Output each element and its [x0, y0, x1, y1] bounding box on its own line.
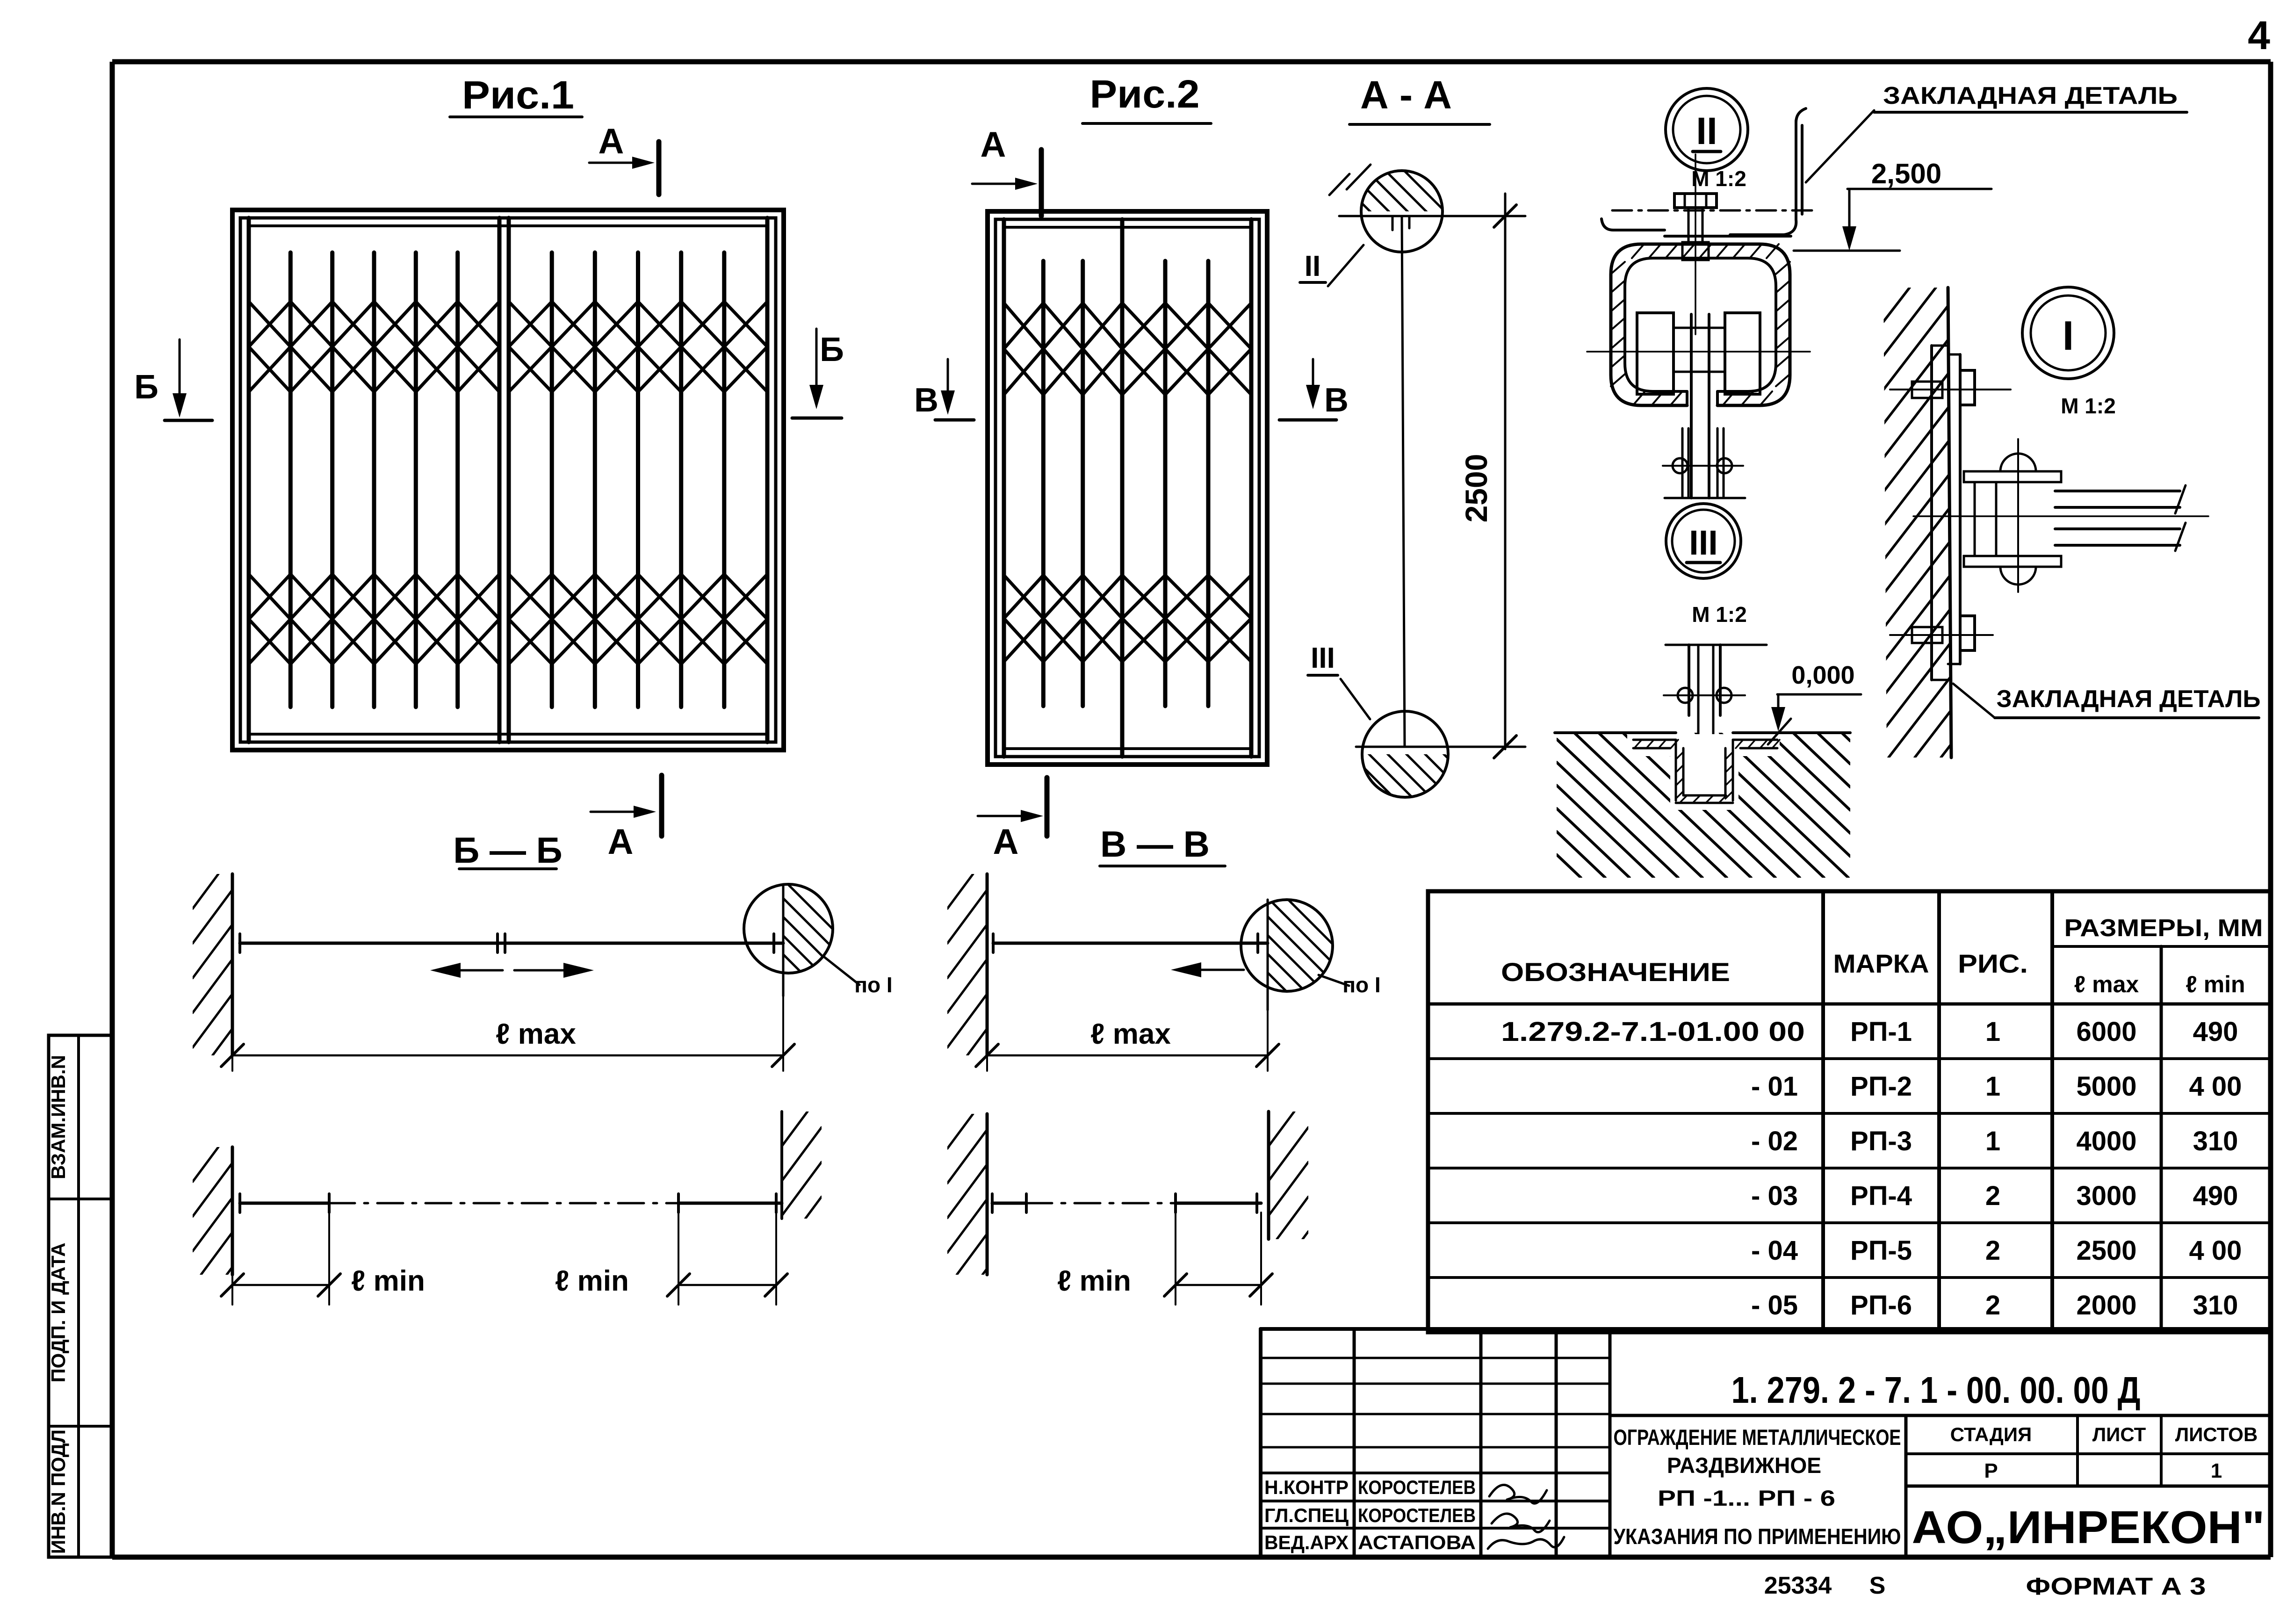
- svg-text:III: III: [1311, 642, 1335, 674]
- svg-text:ЛИСТ: ЛИСТ: [2092, 1423, 2146, 1445]
- svg-text:РП-5: РП-5: [1850, 1235, 1912, 1266]
- svg-text:490: 490: [2193, 1181, 2238, 1211]
- svg-text:- 04: - 04: [1751, 1235, 1798, 1266]
- svg-text:1. 279. 2 - 7. 1 - 00. 00. 00: 1. 279. 2 - 7. 1 - 00. 00. 00 Д: [1731, 1369, 2141, 1411]
- svg-text:II: II: [1696, 110, 1717, 152]
- svg-text:А: А: [993, 822, 1019, 862]
- svg-text:РАЗДВИЖНОЕ: РАЗДВИЖНОЕ: [1667, 1453, 1821, 1478]
- svg-text:ВЗАМ.ИНВ.N: ВЗАМ.ИНВ.N: [47, 1055, 69, 1179]
- svg-text:Н.КОНТР: Н.КОНТР: [1264, 1476, 1349, 1498]
- svg-text:СТАДИЯ: СТАДИЯ: [1950, 1423, 2032, 1445]
- svg-text:ВЕД.АРХ: ВЕД.АРХ: [1264, 1531, 1349, 1553]
- svg-text:2000: 2000: [2076, 1290, 2136, 1321]
- svg-text:РП-6: РП-6: [1850, 1290, 1912, 1321]
- svg-text:ЛИСТОВ: ЛИСТОВ: [2175, 1423, 2258, 1445]
- svg-text:310: 310: [2193, 1290, 2238, 1321]
- svg-text:МАРКА: МАРКА: [1833, 949, 1929, 978]
- svg-text:В — В: В — В: [1100, 823, 1210, 865]
- svg-text:КОРОСТЕЛЕВ: КОРОСТЕЛЕВ: [1358, 1476, 1476, 1498]
- svg-text:2500: 2500: [1459, 454, 1493, 523]
- svg-text:М 1:2: М 1:2: [1691, 166, 1746, 191]
- svg-text:0,000: 0,000: [1791, 661, 1854, 689]
- svg-text:6000: 6000: [2076, 1017, 2136, 1047]
- svg-text:М 1:2: М 1:2: [2061, 394, 2116, 418]
- svg-text:КОРОСТЕЛЕВ: КОРОСТЕЛЕВ: [1358, 1504, 1476, 1526]
- svg-text:II: II: [1305, 250, 1320, 282]
- svg-text:1.279.2-7.1-01.00 00: 1.279.2-7.1-01.00 00: [1501, 1017, 1805, 1047]
- svg-text:490: 490: [2193, 1017, 2238, 1047]
- svg-text:III: III: [1689, 523, 1718, 562]
- svg-text:4 00: 4 00: [2189, 1235, 2242, 1266]
- svg-text:- 05: - 05: [1751, 1290, 1798, 1321]
- svg-text:- 01: - 01: [1751, 1071, 1798, 1102]
- svg-text:4 00: 4 00: [2189, 1071, 2242, 1102]
- svg-text:5000: 5000: [2076, 1071, 2136, 1102]
- svg-text:Б: Б: [134, 368, 159, 406]
- svg-text:АО„ИНРЕКОН": АО„ИНРЕКОН": [1912, 1501, 2265, 1553]
- svg-text:ℓ max: ℓ max: [1090, 1018, 1171, 1050]
- svg-text:ПОДП. И ДАТА: ПОДП. И ДАТА: [47, 1242, 69, 1382]
- svg-text:25334: 25334: [1764, 1572, 1832, 1599]
- svg-text:2: 2: [1985, 1181, 2000, 1211]
- svg-text:ЗАКЛАДНАЯ ДЕТАЛЬ: ЗАКЛАДНАЯ ДЕТАЛЬ: [1883, 82, 2178, 109]
- svg-text:РАЗМЕРЫ, ММ: РАЗМЕРЫ, ММ: [2064, 915, 2263, 942]
- svg-text:РП-4: РП-4: [1850, 1181, 1912, 1211]
- svg-text:А - А: А - А: [1360, 73, 1452, 117]
- svg-text:В: В: [914, 382, 938, 419]
- svg-text:ФОРМАТ А 3: ФОРМАТ А 3: [2026, 1573, 2206, 1600]
- svg-text:Б — Б: Б — Б: [453, 830, 562, 871]
- svg-text:2: 2: [1985, 1235, 2000, 1266]
- svg-text:В: В: [1324, 382, 1349, 419]
- svg-text:I: I: [2063, 312, 2074, 359]
- svg-text:ℓ min: ℓ min: [555, 1265, 629, 1297]
- svg-text:2500: 2500: [2076, 1235, 2136, 1266]
- svg-text:А: А: [599, 122, 624, 161]
- svg-text:РИС.: РИС.: [1958, 949, 2028, 978]
- svg-text:- 02: - 02: [1751, 1126, 1798, 1156]
- svg-text:1: 1: [1985, 1017, 2000, 1047]
- svg-text:ОБОЗНАЧЕНИЕ: ОБОЗНАЧЕНИЕ: [1501, 957, 1730, 987]
- svg-text:4: 4: [2248, 13, 2270, 58]
- svg-text:- 03: - 03: [1751, 1181, 1798, 1211]
- svg-text:ℓ min: ℓ min: [2186, 971, 2245, 997]
- svg-text:ГЛ.СПЕЦ: ГЛ.СПЕЦ: [1264, 1504, 1349, 1526]
- svg-text:РП-3: РП-3: [1850, 1126, 1912, 1156]
- svg-text:РП-2: РП-2: [1850, 1071, 1912, 1102]
- svg-text:ℓ max: ℓ max: [2074, 971, 2139, 997]
- svg-text:2: 2: [1985, 1290, 2000, 1321]
- svg-text:3000: 3000: [2076, 1181, 2136, 1211]
- svg-text:А: А: [608, 822, 634, 862]
- svg-text:ОГРАЖДЕНИЕ МЕТАЛЛИЧЕСКОЕ: ОГРАЖДЕНИЕ МЕТАЛЛИЧЕСКОЕ: [1614, 1425, 1901, 1450]
- svg-text:РП -1... РП - 6: РП -1... РП - 6: [1658, 1486, 1835, 1510]
- svg-text:1: 1: [1985, 1071, 2000, 1102]
- svg-text:310: 310: [2193, 1126, 2238, 1156]
- svg-text:Рис.2: Рис.2: [1090, 72, 1200, 116]
- svg-text:1: 1: [2211, 1459, 2222, 1482]
- svg-text:4000: 4000: [2076, 1126, 2136, 1156]
- svg-text:АСТАПОВА: АСТАПОВА: [1358, 1531, 1476, 1553]
- svg-text:ЗАКЛАДНАЯ ДЕТАЛЬ: ЗАКЛАДНАЯ ДЕТАЛЬ: [1997, 686, 2261, 713]
- svg-text:ℓ max: ℓ max: [496, 1018, 576, 1050]
- svg-text:Б: Б: [820, 331, 844, 368]
- svg-text:ℓ min: ℓ min: [1057, 1265, 1131, 1297]
- svg-text:Рис.1: Рис.1: [462, 73, 574, 117]
- svg-text:ℓ min: ℓ min: [351, 1265, 425, 1297]
- svg-text:2,500: 2,500: [1871, 158, 1941, 189]
- svg-text:М 1:2: М 1:2: [1692, 602, 1747, 627]
- svg-text:УКАЗАНИЯ ПО ПРИМЕНЕНИЮ: УКАЗАНИЯ ПО ПРИМЕНЕНИЮ: [1614, 1524, 1901, 1549]
- svg-text:1: 1: [1985, 1126, 2000, 1156]
- svg-text:А: А: [981, 125, 1006, 165]
- svg-text:S: S: [1869, 1572, 1886, 1599]
- svg-text:ИНВ.N ПОДЛ: ИНВ.N ПОДЛ: [47, 1429, 69, 1554]
- svg-text:РП-1: РП-1: [1850, 1017, 1912, 1047]
- svg-text:Р: Р: [1984, 1459, 1998, 1482]
